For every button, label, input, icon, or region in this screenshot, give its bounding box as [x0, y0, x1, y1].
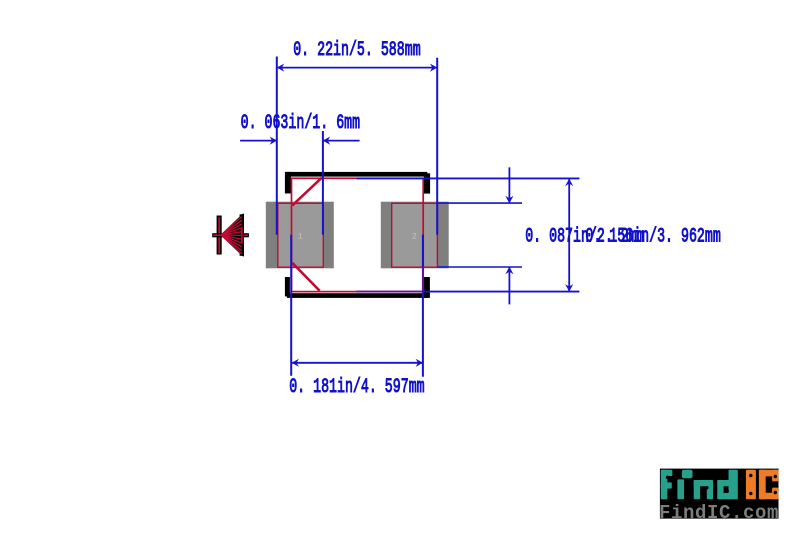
logo black background: [660, 469, 779, 519]
extension line body left lower (x=291.2): [290, 235, 292, 376]
svg-text:FindIC.com: FindIC.com: [659, 502, 779, 524]
logo letter n: [694, 480, 700, 499]
diode fan lines: [221, 217, 242, 254]
svg-text:0. 22in/5. 588mm: 0. 22in/5. 588mm: [293, 40, 420, 62]
svg-text:0. 181in/4. 597mm: 0. 181in/4. 597mm: [289, 376, 424, 398]
pad 2 mask opening (inner light gray, red border): [392, 203, 438, 267]
diode cathode bar: [217, 216, 222, 255]
diode triangle: [222, 214, 244, 255]
extension line left (x=276.8): [276, 57, 278, 235]
svg-text:2: 2: [412, 231, 417, 241]
silkscreen bottom-left hook: [285, 277, 290, 296]
logo letter I: [746, 470, 756, 500]
arrow top-right: [430, 64, 437, 72]
dimension tail 0.063 right: [323, 140, 360, 142]
arrow bottom-right: [416, 359, 423, 367]
pad 1 mask opening (inner light gray, red border): [278, 203, 324, 267]
extension line right (x=437.2): [436, 58, 438, 235]
dimension line top (0.22in span): [277, 67, 437, 69]
svg-text:0. 063in/1. 6mm: 0. 063in/1. 6mm: [241, 112, 360, 134]
silkscreen top-left hook: [285, 172, 291, 194]
svg-text:1: 1: [298, 231, 303, 241]
diode triangle base bar: [240, 214, 244, 256]
dimension line right A upper (0.087in): [508, 167, 510, 203]
silkscreen top bar: [287, 172, 428, 177]
body outline (red rectangle): [292, 178, 424, 291]
extension line body top horizontal: [357, 177, 580, 179]
pin1 marker diagonal top: [292, 178, 322, 206]
logo letter F: [661, 470, 668, 500]
svg-text:0. 156in/3. 962mm: 0. 156in/3. 962mm: [585, 226, 720, 248]
extension line pad top horizontal: [438, 202, 522, 204]
arrow bottom-left: [292, 359, 299, 367]
arrow right B up: [565, 179, 573, 186]
pad 1 copper (outer gray): [266, 202, 334, 269]
arrow right A down: [505, 196, 513, 203]
silkscreen bottom-right hook: [424, 277, 430, 298]
arrow right A up: [505, 267, 513, 274]
dimension tail 0.063 left: [240, 140, 277, 142]
diode symbol: [212, 214, 249, 256]
arrow 0.063 left (pointing right): [270, 137, 277, 145]
logo letter C: [759, 470, 766, 500]
silkscreen top-right hook: [424, 173, 430, 193]
dimension line right A lower: [508, 267, 510, 305]
FindIC logo: [659, 469, 779, 524]
silkscreen bottom bar: [287, 293, 427, 298]
extension line pad bottom horizontal: [438, 266, 522, 268]
logo trace dots: [666, 476, 669, 479]
dimension line bottom (0.181in span): [292, 362, 423, 364]
arrow right B down: [565, 284, 573, 291]
arrow top-left: [277, 64, 284, 72]
logo letter i: [677, 479, 684, 499]
extension line pad1 right (x=322.9): [322, 131, 324, 235]
pin1 marker diagonal bottom: [292, 263, 319, 291]
arrow 0.063 right (pointing left): [323, 137, 330, 145]
logo letter d: [717, 480, 723, 499]
extension line body right lower (x=422.9): [422, 235, 424, 267]
dimension line right B (0.156in): [568, 179, 570, 292]
diode base cross bar: [241, 227, 243, 243]
extension line body bottom horizontal: [357, 291, 424, 293]
diode lead wire horizontal: [212, 233, 249, 237]
pad 2 copper (outer gray): [381, 202, 449, 269]
